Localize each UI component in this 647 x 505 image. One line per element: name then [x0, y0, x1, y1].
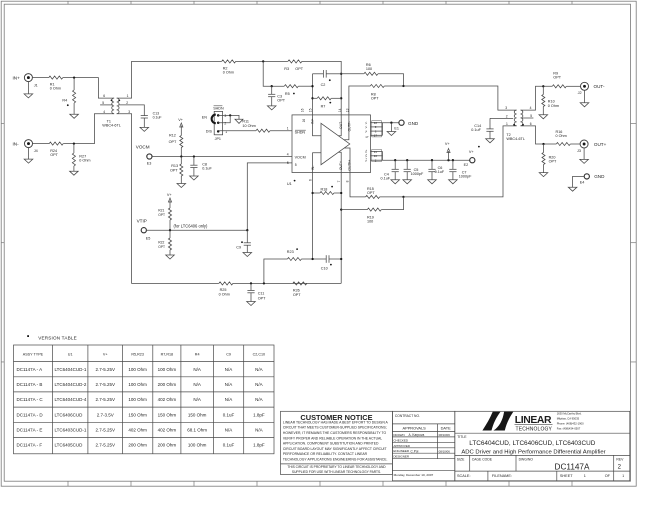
- wire R25 to pin7 vertical: [233, 282, 341, 284]
- svg-text:V+: V+: [469, 150, 475, 154]
- svg-text:OPT: OPT: [549, 160, 557, 164]
- svg-text:1630 McCarthy Blvd.: 1630 McCarthy Blvd.: [557, 411, 582, 415]
- svg-text:IN+: IN+: [310, 119, 314, 124]
- capacitor C4 0.1uF: [394, 160, 396, 169]
- node C8 tap: [193, 155, 195, 157]
- svg-text:CAGE CODE: CAGE CODE: [472, 458, 493, 462]
- resistor R7: [313, 97, 318, 99]
- transformer T1 WBC4-6TL: [112, 98, 114, 114]
- capacitor C14 0.1uF: [489, 118, 491, 129]
- svg-text:OUTF+: OUTF+: [348, 160, 352, 171]
- svg-text:PERFORMANCE OR RELIABILITY.: PERFORMANCE OR RELIABILITY. CONTACT LINE…: [283, 452, 368, 456]
- svg-text:IN-: IN-: [13, 141, 20, 146]
- T2 phase dots: [513, 124, 515, 126]
- node C3 tap: [271, 85, 273, 87]
- terminal E2 V+: [470, 158, 475, 163]
- svg-text:JP1: JP1: [215, 137, 221, 141]
- ground at V-: [390, 123, 392, 132]
- connector J2 OUT-: [581, 82, 589, 90]
- resistor R24 OPT: [49, 142, 63, 145]
- wire R23 to C10: [301, 258, 326, 260]
- resistor R19 100: [367, 208, 381, 211]
- svg-text:LTC6404CUD-4: LTC6404CUD-4: [55, 397, 87, 402]
- svg-text:OUT-: OUT-: [594, 84, 605, 89]
- resistor R15 OPT: [366, 195, 380, 198]
- svg-text:DWG/NO: DWG/NO: [519, 458, 534, 462]
- svg-text:LTC6404CUD-1: LTC6404CUD-1: [55, 367, 87, 372]
- wire JP1 pin3 to gnd: [218, 115, 239, 119]
- version table: [14, 345, 275, 454]
- svg-text:1000pF: 1000pF: [411, 172, 424, 176]
- svg-text:OPT: OPT: [553, 76, 561, 80]
- svg-text:CONTRACT NO.: CONTRACT NO.: [395, 414, 420, 418]
- svg-text:2.7-5.25V: 2.7-5.25V: [95, 443, 115, 448]
- wire R2 to feedback node: [236, 60, 288, 62]
- svg-text:DC1147A - C: DC1147A - C: [17, 397, 44, 402]
- svg-text:OPT: OPT: [371, 97, 379, 101]
- svg-text:68.1 Ohm: 68.1 Ohm: [187, 427, 207, 432]
- svg-text:WBC4-6TL: WBC4-6TL: [102, 124, 121, 128]
- capacitor C8 0.1uF: [193, 157, 195, 166]
- capacitor C2: [313, 73, 324, 75]
- svg-text:N/A: N/A: [193, 397, 201, 402]
- svg-text:C10: C10: [321, 267, 328, 271]
- svg-text:TITLE: TITLE: [457, 435, 467, 439]
- svg-text:1.8pF: 1.8pF: [253, 412, 265, 417]
- svg-text:3: 3: [128, 110, 130, 114]
- svg-text:OF: OF: [605, 474, 611, 478]
- resistor R9 OPT: [552, 85, 566, 88]
- svg-text:E5: E5: [146, 236, 151, 240]
- svg-text:2.7-5.25V: 2.7-5.25V: [95, 382, 115, 387]
- svg-text:R4: R4: [195, 353, 200, 357]
- svg-text:E1: E1: [394, 127, 399, 131]
- svg-text:N/A: N/A: [255, 382, 263, 387]
- wire R8 to T2 pin 3: [384, 85, 403, 87]
- svg-text:402 Ohm: 402 Ohm: [128, 427, 147, 432]
- T1 phase dots: [111, 100, 113, 102]
- svg-text:100: 100: [366, 67, 372, 71]
- resistor R27 0 Ohm: [73, 144, 75, 153]
- svg-text:LTC6405CUD: LTC6405CUD: [55, 443, 84, 448]
- svg-text:2.7-5.25V: 2.7-5.25V: [95, 367, 115, 372]
- capacitor C9: [246, 230, 248, 243]
- svg-text:5: 5: [295, 163, 297, 167]
- capacitor C10: [325, 255, 327, 263]
- ground below C13: [143, 118, 145, 127]
- svg-text:0.1uF: 0.1uF: [202, 167, 212, 171]
- T2 pin 2 stub and C14: [490, 117, 513, 119]
- svg-text:7: 7: [337, 180, 341, 182]
- svg-text:J2: J2: [578, 91, 582, 95]
- wire R15 to T2 pin 1 net: [380, 196, 404, 198]
- svg-text:1.8pF: 1.8pF: [253, 443, 265, 448]
- wire pin13 to R8: [349, 86, 370, 115]
- wire T1 pin 2 to C13: [119, 105, 145, 116]
- svg-text:V+: V+: [364, 158, 368, 162]
- ground below C3: [271, 97, 273, 106]
- svg-text:C.Poi: C.Poi: [411, 449, 419, 453]
- svg-text:DIS: DIS: [206, 130, 213, 134]
- svg-text:2.7-5.25V: 2.7-5.25V: [95, 427, 115, 432]
- svg-text:Fax: (408)434-0507: Fax: (408)434-0507: [557, 427, 581, 431]
- svg-text:V+: V+: [364, 153, 368, 157]
- svg-text:E3: E3: [147, 162, 152, 166]
- node junction R1/R4: [73, 76, 75, 78]
- svg-text:VOCM: VOCM: [136, 144, 150, 149]
- wire junction to T2 pin 1: [404, 126, 517, 197]
- zone tick marks top/bottom: [67, 1, 69, 4]
- svg-text:N/A: N/A: [225, 382, 233, 387]
- U1 internal OUTF+ wire: [344, 148, 350, 173]
- svg-text:TECHNOLOGY: TECHNOLOGY: [516, 427, 553, 433]
- svg-text:J1: J1: [34, 83, 38, 87]
- resistor R26 OPT: [293, 282, 307, 285]
- svg-text:R21: R21: [158, 208, 164, 212]
- svg-text:J3: J3: [577, 149, 581, 153]
- svg-text:R7,R18: R7,R18: [161, 353, 174, 357]
- svg-text:0.1uF: 0.1uF: [153, 115, 162, 119]
- svg-text:OUTF-: OUTF-: [347, 121, 351, 131]
- wire J4 to R24: [32, 143, 49, 145]
- svg-text:Monday, December 10, 2007: Monday, December 10, 2007: [394, 473, 434, 477]
- svg-text:R5,R23: R5,R23: [131, 353, 144, 357]
- U1 internal OUTF- wire: [344, 115, 349, 140]
- svg-text:0 Ohm: 0 Ohm: [223, 70, 234, 74]
- node R6/R8 junction: [402, 85, 404, 87]
- svg-text:C9: C9: [236, 246, 241, 250]
- wire E3 to U1 pin 4: [152, 156, 292, 158]
- Linear Technology logo: [482, 412, 513, 431]
- svg-text:0 Ohm: 0 Ohm: [548, 104, 559, 108]
- wire V- bus to E1: [383, 122, 399, 124]
- svg-text:0 Ohm: 0 Ohm: [219, 292, 230, 296]
- ground below J2: [584, 90, 586, 103]
- resistor R16 0 Ohm: [556, 142, 570, 145]
- wire R24 to T1 pin 4: [63, 114, 114, 144]
- svg-text:16: 16: [302, 119, 306, 123]
- svg-text:5: 5: [287, 161, 289, 165]
- svg-text:VERSION TABLE: VERSION TABLE: [38, 335, 77, 340]
- svg-text:OPT: OPT: [295, 67, 303, 71]
- svg-text:0 Ohm: 0 Ohm: [79, 159, 90, 163]
- svg-text:OPT: OPT: [169, 140, 177, 144]
- wire R16 to J3: [570, 143, 580, 145]
- svg-text:100: 100: [367, 220, 373, 224]
- svg-text:E2: E2: [464, 163, 469, 167]
- svg-text:THIS CIRCUIT IS PROPRIETARY TO: THIS CIRCUIT IS PROPRIETARY TO LINEAR TE…: [287, 465, 386, 469]
- resistor R23: [287, 257, 301, 260]
- wire junction to T2 pin 3: [404, 86, 517, 110]
- svg-text:EN: EN: [202, 115, 207, 119]
- wire top junction down to R5 row: [263, 61, 284, 86]
- svg-text:V+: V+: [178, 118, 184, 122]
- svg-text:100 Ohm: 100 Ohm: [158, 367, 177, 372]
- U1 internal OUT+ wire: [338, 152, 341, 172]
- capacitor C6 0.1uF: [431, 160, 433, 169]
- ground below J1: [27, 81, 29, 94]
- wire R5 to block left vertical: [298, 85, 312, 87]
- ground below C8: [193, 167, 195, 176]
- svg-text:V+: V+: [167, 193, 173, 197]
- ground below C7: [452, 172, 454, 180]
- svg-text:DESIGNER: DESIGNER: [393, 455, 410, 459]
- terminal E1 GND: [399, 120, 404, 125]
- T2 pin 5 stub: [522, 117, 533, 119]
- wire block left vertical (IN+ node): [312, 74, 314, 115]
- node V1 R7 row: [340, 97, 342, 99]
- svg-text:150 Ohm: 150 Ohm: [128, 412, 147, 417]
- wire pin14 node to R6: [341, 73, 364, 75]
- svg-text:GND: GND: [408, 121, 419, 126]
- svg-text:2.7-3.5V: 2.7-3.5V: [97, 412, 114, 417]
- svg-text:OPT: OPT: [367, 191, 375, 195]
- svg-text:1: 1: [622, 474, 624, 478]
- resistor R8 OPT: [370, 84, 384, 87]
- resistor R5: [284, 85, 298, 88]
- svg-text:1: 1: [584, 474, 586, 478]
- svg-text:IN+: IN+: [13, 75, 21, 80]
- terminal E4 GND: [584, 174, 589, 179]
- svg-text:13: 13: [345, 108, 349, 112]
- svg-text:CIRCUIT BOARD LAYOUT MAY SIGNI: CIRCUIT BOARD LAYOUT MAY SIGNIFICANTLY A…: [283, 447, 387, 451]
- svg-text:N/A: N/A: [255, 427, 263, 432]
- svg-text:VERIFY PROPER AND RELIABLE OPE: VERIFY PROPER AND RELIABLE OPERATION IN …: [283, 436, 382, 440]
- svg-text:14: 14: [338, 108, 342, 112]
- svg-text:OUT+: OUT+: [594, 142, 607, 147]
- svg-text:VOCM: VOCM: [295, 156, 306, 160]
- svg-text:Phone: (408)432-1900: Phone: (408)432-1900: [557, 422, 584, 426]
- T1 pin 5 stub: [100, 104, 113, 106]
- svg-text:DC1147A - D: DC1147A - D: [17, 412, 44, 417]
- svg-text:R4: R4: [62, 99, 67, 103]
- svg-text:100 Ohm: 100 Ohm: [128, 397, 147, 402]
- svg-text:CIRCUIT THAT MEETS CUSTOMER-SU: CIRCUIT THAT MEETS CUSTOMER-SUPPLIED SPE…: [283, 426, 387, 430]
- ground below C6: [431, 172, 433, 180]
- svg-text:N/A: N/A: [225, 397, 233, 402]
- svg-text:R22: R22: [158, 240, 164, 244]
- svg-text:U1: U1: [68, 353, 73, 357]
- resistor R20 OPT: [543, 144, 545, 153]
- svg-text:IN-: IN-: [311, 166, 315, 170]
- svg-text:SCALE:: SCALE:: [457, 474, 471, 478]
- svg-text:V+: V+: [364, 149, 368, 153]
- svg-text:16: 16: [374, 154, 378, 158]
- svg-text:08/10/06: 08/10/06: [439, 433, 451, 437]
- resistor R10 0 Ohm: [542, 86, 544, 94]
- svg-text:N/A: N/A: [193, 382, 201, 387]
- svg-text:0.1uF: 0.1uF: [471, 128, 481, 132]
- svg-text:Milpitas, CA 95035: Milpitas, CA 95035: [557, 417, 580, 421]
- svg-text:REV: REV: [616, 458, 624, 462]
- U1 internal IN+ wire: [313, 115, 322, 136]
- wire JP1 pin2 up: [218, 115, 230, 122]
- svg-text:OPT: OPT: [170, 168, 178, 172]
- svg-text:200 Ohm: 200 Ohm: [158, 443, 177, 448]
- U1 internal IN- wire: [313, 153, 321, 173]
- connector J1 IN+: [24, 74, 32, 82]
- svg-text:R18: R18: [321, 188, 328, 192]
- wire J1 to R1: [32, 77, 49, 79]
- wire R6 right to junction: [378, 74, 404, 86]
- svg-text:0.1uF: 0.1uF: [223, 443, 235, 448]
- svg-text:N/A: N/A: [193, 367, 201, 372]
- svg-text:17: 17: [365, 135, 369, 139]
- ground below R4: [73, 103, 75, 114]
- svg-text:100 Ohm: 100 Ohm: [188, 443, 207, 448]
- svg-text:V+: V+: [445, 142, 451, 146]
- svg-text:OPT: OPT: [293, 293, 301, 297]
- resistor R18: [311, 192, 313, 194]
- svg-text:1: 1: [506, 122, 508, 126]
- svg-text:08/10/06: 08/10/06: [439, 449, 451, 453]
- wire T1 pin 1 up to top rail: [117, 61, 222, 98]
- svg-text:1: 1: [127, 94, 129, 98]
- svg-text:APPLICATION. COMPONENT SUBSTI: APPLICATION. COMPONENT SUBSTITUTION AND …: [283, 442, 379, 446]
- svg-text:5: 5: [102, 101, 104, 105]
- svg-text:V-: V-: [364, 130, 368, 133]
- svg-text:SIZE: SIZE: [457, 458, 465, 462]
- svg-text:DC1147A - F: DC1147A - F: [17, 443, 43, 448]
- svg-text:CHECKED: CHECKED: [393, 438, 409, 442]
- svg-text:LTC6406CUD: LTC6406CUD: [55, 412, 84, 417]
- ground at JP1 pin3: [235, 119, 243, 123]
- U1 internal OUT- wire: [338, 115, 341, 136]
- svg-text:DC1147A - A: DC1147A - A: [17, 367, 43, 372]
- svg-text:E4: E4: [580, 181, 585, 185]
- svg-text:6: 6: [103, 94, 105, 98]
- svg-text:0.1uF: 0.1uF: [223, 412, 235, 417]
- resistor R11 10 Ohm: [256, 129, 270, 132]
- svg-text:1000pF: 1000pF: [459, 174, 472, 178]
- connector J3 OUT+: [580, 140, 588, 148]
- svg-text:4: 4: [530, 106, 532, 110]
- svg-text:R7: R7: [321, 104, 326, 108]
- capacitor C13 0.1uF: [141, 115, 148, 117]
- svg-text:ENGINEER: ENGINEER: [393, 449, 410, 453]
- svg-text:4: 4: [103, 110, 105, 114]
- svg-text:C11: C11: [258, 292, 265, 296]
- wire T1 pin 3 down to bottom rail: [117, 114, 219, 284]
- resistor R22 OPT: [169, 230, 171, 238]
- ground below J4: [28, 147, 30, 159]
- svg-text:C9: C9: [226, 353, 231, 357]
- ground below C4: [394, 172, 396, 180]
- svg-text:C2: C2: [321, 83, 326, 87]
- svg-text:V-: V-: [364, 126, 368, 129]
- svg-text:U1: U1: [287, 182, 292, 186]
- wire R19 row: [340, 208, 342, 210]
- svg-text:16: 16: [301, 108, 305, 112]
- svg-text:(for LTC6406 only): (for LTC6406 only): [174, 223, 208, 228]
- wire T2 pin 6 to OUT+: [521, 126, 557, 144]
- svg-text:OPT: OPT: [158, 245, 165, 249]
- svg-text:0 Ohm: 0 Ohm: [556, 134, 567, 138]
- wire V+ rail to E2: [383, 159, 470, 161]
- ground below C14: [489, 131, 491, 139]
- svg-text:OUT-: OUT-: [339, 121, 343, 129]
- transformer T2 WBC4-6TL: [514, 110, 516, 126]
- svg-text:TECHNOLOGY APPLICATIONS ENGINE: TECHNOLOGY APPLICATIONS ENGINEERING FOR …: [283, 458, 388, 462]
- svg-text:OPT: OPT: [158, 213, 165, 217]
- resistor R12 OPT: [180, 136, 183, 148]
- svg-text:C2,C10: C2,C10: [253, 353, 266, 357]
- resistor R2 0 Ohm: [222, 60, 236, 63]
- ground below J3: [583, 148, 585, 160]
- svg-text:R3: R3: [284, 67, 289, 71]
- svg-text:3: 3: [224, 114, 226, 118]
- connector J4 IN-: [25, 140, 33, 148]
- svg-text:2: 2: [506, 115, 508, 119]
- wire R23 branch vertical: [264, 259, 288, 283]
- resistor R3 OPT: [288, 60, 302, 63]
- svg-text:V-: V-: [364, 121, 368, 124]
- svg-text:17: 17: [374, 134, 378, 138]
- svg-text:A. Karpova: A. Karpova: [409, 433, 425, 437]
- svg-text:N/A: N/A: [225, 367, 233, 372]
- svg-text:HOWEVER, IT REMAINS THE CUSTOM: HOWEVER, IT REMAINS THE CUSTOMERS RESPON…: [283, 431, 387, 435]
- U1 V- pin stubs: [371, 122, 383, 124]
- svg-text:APPROVED: APPROVED: [393, 444, 411, 448]
- capacitor C11 OPT: [250, 283, 252, 290]
- svg-text:6: 6: [308, 179, 312, 181]
- svg-text:WBC4-6TL: WBC4-6TL: [506, 137, 525, 141]
- ground below R27: [73, 166, 75, 171]
- svg-text:200 Ohm: 200 Ohm: [128, 443, 147, 448]
- svg-text:DC1147A - B: DC1147A - B: [17, 382, 43, 387]
- svg-text:GND: GND: [594, 174, 605, 179]
- node V1 C2 row: [340, 73, 342, 75]
- svg-text:3: 3: [505, 106, 507, 110]
- zone tick marks left/right: [1, 122, 4, 124]
- ground below C5: [406, 172, 408, 180]
- svg-text:LTC6404CUD-2: LTC6404CUD-2: [55, 382, 87, 387]
- capacitor C7 1000pF: [452, 160, 454, 169]
- svg-text:N/A: N/A: [225, 427, 233, 432]
- wire R11 to U1 pin 1: [270, 130, 292, 132]
- svg-text:R12: R12: [169, 133, 176, 137]
- svg-text:1: 1: [287, 127, 289, 131]
- svg-text:SHDN: SHDN: [213, 106, 224, 110]
- svg-text:2.7-5.25V: 2.7-5.25V: [95, 397, 115, 402]
- svg-text:LTC6403CUD-1: LTC6403CUD-1: [55, 427, 87, 432]
- svg-text:FILENAME:: FILENAME:: [492, 474, 512, 478]
- svg-text:200 Ohm: 200 Ohm: [158, 382, 177, 387]
- svg-text:8: 8: [346, 180, 350, 182]
- node top rail junction: [262, 60, 264, 62]
- svg-text:100 Ohm: 100 Ohm: [128, 382, 147, 387]
- resistor R25 0 Ohm: [219, 282, 233, 285]
- wire JP1 pin1 to R11: [218, 130, 256, 132]
- svg-text:ASSY TYPE: ASSY TYPE: [23, 353, 44, 357]
- ground below R22: [169, 250, 171, 255]
- svg-text:0.1uF: 0.1uF: [381, 176, 391, 180]
- JP1 shunt EN position: [212, 115, 216, 124]
- resistor R13 OPT: [180, 157, 182, 165]
- svg-text:0 Ohm: 0 Ohm: [50, 87, 61, 91]
- ground below R10: [542, 107, 544, 115]
- svg-text:DRAWN: DRAWN: [393, 433, 404, 437]
- resistor R21 OPT: [168, 208, 171, 220]
- svg-text:N/A: N/A: [255, 397, 263, 402]
- capacitor C5 1000pF: [406, 160, 408, 169]
- svg-text:2: 2: [224, 121, 226, 125]
- svg-text:ADC Driver and High Performanc: ADC Driver and High Performance Differen…: [461, 449, 605, 455]
- wire E4 to ground: [573, 176, 585, 187]
- svg-text:OPT: OPT: [50, 153, 58, 157]
- wire R19 to junction: [381, 197, 403, 210]
- node junction R24/R27: [73, 142, 75, 144]
